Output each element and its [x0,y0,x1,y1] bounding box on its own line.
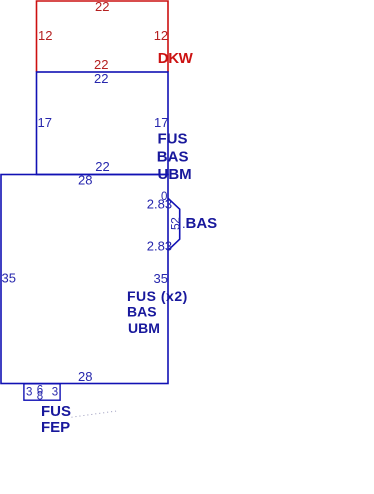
svg-text:3: 3 [52,387,58,399]
svg-text:52: 52 [169,217,183,230]
svg-text:22: 22 [94,71,108,86]
svg-text:UBM: UBM [128,320,160,336]
svg-text:.: . [182,216,186,231]
dotted leader line [72,411,119,417]
svg-text:28: 28 [78,173,92,188]
svg-text:17: 17 [38,115,52,130]
svg-text:22: 22 [95,0,109,14]
small bottom box [24,384,60,400]
svg-text:3: 3 [26,387,32,399]
svg-text:2.83: 2.83 [147,238,172,253]
red box DKW (top/left/right edges) [37,1,169,72]
svg-text:BAS: BAS [186,215,218,232]
middle blue box [37,72,169,175]
svg-text:8: 8 [37,391,43,403]
svg-text:35: 35 [154,271,168,286]
svg-text:22: 22 [95,159,109,174]
svg-text:BAS: BAS [127,304,157,320]
svg-text:FUS: FUS [41,403,71,420]
svg-text:DKW: DKW [158,50,194,67]
svg-text:17: 17 [154,115,168,130]
svg-text:35: 35 [2,271,16,286]
big blue box [1,175,168,384]
bump notch on right edge [168,198,180,250]
svg-text:12: 12 [154,28,168,43]
svg-text:12: 12 [38,28,52,43]
svg-text:FUS: FUS [158,131,188,148]
svg-text:FUS (x2): FUS (x2) [127,288,188,304]
svg-text:BAS: BAS [157,148,189,165]
svg-text:22: 22 [94,57,108,72]
svg-text:28: 28 [78,369,92,384]
svg-text:FEP: FEP [41,419,70,436]
